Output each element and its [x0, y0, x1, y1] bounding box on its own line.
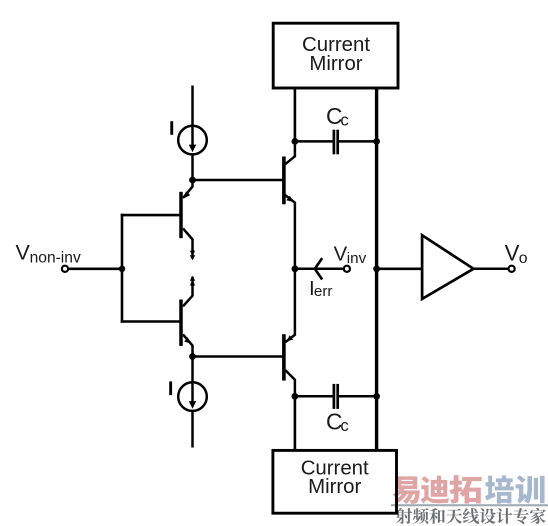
node output row on rail	[373, 265, 380, 272]
watermark tagline char ji	[496, 508, 512, 524]
current source I2 bottom	[178, 382, 207, 411]
node bottom Cc left	[292, 393, 299, 400]
transistor Q4 base bar	[282, 334, 286, 380]
op-amp buffer U1 triangle	[422, 235, 473, 299]
terminal Vo	[509, 266, 515, 272]
wire bracket to Q2 base	[121, 320, 180, 323]
watermark tagline char jia	[530, 508, 546, 524]
wire from top mirror to top Cc node	[294, 88, 297, 142]
node top Cc right on rail	[373, 138, 380, 145]
wire right rail from top mirror to bottom mirror	[375, 88, 378, 451]
svg-text:c: c	[340, 111, 348, 130]
current mirror box top	[273, 23, 398, 88]
transistor Q4 collector	[285, 370, 295, 396]
svg-text:V: V	[334, 244, 348, 266]
svg-text:c: c	[340, 416, 348, 435]
transistor Q2 emitter bottom with NPN arrow	[183, 335, 193, 357]
watermark logo char tuo	[450, 475, 482, 504]
terminal Vnon-inv	[62, 266, 68, 272]
node bottom Cc right on rail	[373, 393, 380, 400]
label Vinv	[334, 244, 367, 267]
capacitor C1 top Cc plates	[334, 130, 338, 155]
label Cc top	[326, 103, 349, 130]
arrow Ierr pointing left	[315, 258, 322, 279]
transistor Q3 emitter with NPN arrow	[284, 194, 295, 268]
wire bracket to Q1 base	[121, 214, 180, 217]
wire node to Vinv terminal	[295, 268, 344, 271]
wire top row node A to Q3 base	[193, 179, 284, 182]
capacitor C2 bottom Cc wire left	[295, 395, 333, 398]
svg-text:Mirror: Mirror	[309, 53, 362, 75]
transistor Q3 collector	[284, 141, 295, 164]
transistor Q4 emitter with PNP arrow	[285, 269, 295, 342]
watermark tagline char tian	[446, 508, 462, 524]
wire Vnon-inv to bracket node	[68, 267, 122, 270]
node input bracket	[119, 266, 125, 272]
capacitor C2 bottom Cc wire right	[339, 395, 377, 398]
wire below bottom source	[191, 411, 194, 448]
watermark logo char yi	[392, 476, 419, 504]
transistor Q2 collector with up chevrons	[183, 276, 195, 307]
wire from bottom Cc node to bottom mirror	[294, 396, 297, 451]
node top Cc left	[292, 138, 299, 145]
capacitor C1 top Cc wire right	[339, 140, 377, 143]
svg-text:Mirror: Mirror	[308, 476, 361, 498]
label Vnon-inv	[16, 241, 81, 267]
svg-text:V: V	[505, 241, 520, 266]
watermark tagline char he	[429, 508, 445, 524]
current mirror box bottom	[273, 450, 397, 513]
watermark tagline char pin	[413, 508, 429, 524]
watermark tagline char she	[396, 508, 412, 524]
current source I1 top	[178, 126, 207, 155]
svg-text:o: o	[519, 250, 528, 267]
node B bottom row	[189, 353, 196, 360]
label Ierr	[309, 278, 332, 300]
watermark tagline char zhuan	[513, 508, 529, 524]
wire rail to buffer	[377, 267, 421, 270]
svg-text:non-inv: non-inv	[30, 250, 81, 267]
label I1	[170, 121, 173, 135]
transistor Q2 base bar	[179, 300, 183, 346]
watermark tagline char xian	[463, 508, 479, 524]
svg-text:V: V	[16, 241, 31, 265]
terminal Vinv	[344, 266, 350, 272]
transistor Q1 collector with down chevrons	[183, 228, 195, 260]
watermark logo char pei	[485, 475, 514, 504]
capacitor C1 top Cc wire left	[295, 140, 333, 143]
wire bottom row node B to Q4 base	[193, 355, 284, 358]
capacitor C2 bottom Cc plates	[334, 384, 338, 409]
label Vo	[505, 241, 528, 268]
svg-text:err: err	[314, 283, 333, 300]
watermark logo char di	[421, 476, 450, 504]
transistor Q3 base bar	[282, 157, 286, 205]
label I2	[169, 381, 172, 395]
node emitter junction left column	[292, 265, 299, 272]
watermark logo char xun	[516, 475, 545, 503]
wire top supply feed	[191, 86, 194, 148]
wire input bracket vertical	[121, 214, 124, 323]
wire node B to bottom source	[191, 357, 194, 405]
wire top source to node	[191, 154, 194, 180]
transistor Q1 base bar	[179, 192, 183, 238]
wire buffer to Vo terminal	[474, 268, 509, 271]
svg-text:inv: inv	[347, 250, 367, 267]
transistor Q1 emitter top with PNP arrow	[183, 180, 193, 198]
watermark underline	[391, 504, 548, 506]
watermark tagline char she2	[480, 508, 496, 524]
label Cc bottom	[326, 408, 349, 435]
node A top row	[189, 177, 196, 184]
